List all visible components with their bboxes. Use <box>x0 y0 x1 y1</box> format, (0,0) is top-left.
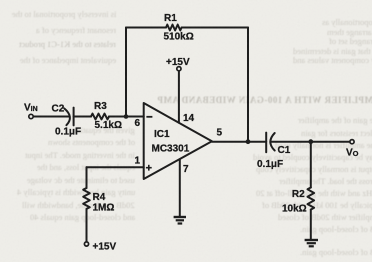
bleed-through text right column top <box>322 17 372 27</box>
op-amp plus sign <box>146 165 152 171</box>
wire R2 to ground <box>310 210 312 240</box>
wire feedback left vertical <box>125 28 127 117</box>
capacitor C2 straight plate <box>73 108 75 126</box>
wire R4 to +15V terminal <box>86 209 88 242</box>
svg-text:6: 6 <box>135 118 141 129</box>
bleed-through text bottom-left <box>72 125 135 135</box>
capacitor C1 straight plate <box>265 133 267 153</box>
wire VIN to C2 <box>33 116 69 118</box>
svg-text:VIN: VIN <box>24 103 38 114</box>
svg-text:R1: R1 <box>164 13 177 24</box>
terminal +15V bottom <box>84 242 88 246</box>
resistor R4 zigzag <box>83 188 90 209</box>
node junction feedback/output <box>246 139 251 144</box>
op-amp IC1 triangle <box>144 103 212 179</box>
terminal +15V top <box>177 67 181 71</box>
svg-text:+15V: +15V <box>166 57 190 68</box>
terminal VO <box>350 140 354 144</box>
pin 7 ground line <box>179 159 181 217</box>
wire feedback top right <box>182 27 248 29</box>
wire pin 1 down to R4 <box>86 167 88 188</box>
wire feedback right vertical <box>247 28 249 142</box>
svg-text:5: 5 <box>217 128 223 139</box>
svg-text:IC1: IC1 <box>154 129 170 140</box>
svg-text:R2: R2 <box>292 189 305 200</box>
resistor R1 zigzag <box>166 25 182 31</box>
wire R3 to pin 6 <box>109 116 144 118</box>
svg-text:MC3301: MC3301 <box>152 144 190 155</box>
svg-text:510kΩ: 510kΩ <box>164 32 194 43</box>
svg-text:5.1kΩ: 5.1kΩ <box>95 120 122 131</box>
wire output pin 5 <box>212 141 266 143</box>
node junction C1/R2/VO <box>308 139 313 144</box>
bleed-through text top-left <box>12 9 116 19</box>
ground R2 <box>305 240 318 246</box>
svg-text:R3: R3 <box>94 101 107 112</box>
+15V supply line to pin 14 <box>178 71 180 123</box>
svg-text:R4: R4 <box>93 192 106 203</box>
svg-text:C1: C1 <box>278 145 291 156</box>
node junction R3/feedback <box>124 114 129 119</box>
wire C1 to VO <box>272 141 350 143</box>
svg-text:10kΩ: 10kΩ <box>282 204 307 215</box>
svg-text:1MΩ: 1MΩ <box>93 203 115 214</box>
capacitor C2 curved plate <box>64 108 70 125</box>
op-amp minus sign <box>146 116 152 118</box>
resistor R2 zigzag <box>308 188 315 210</box>
svg-text:0.1μF: 0.1μF <box>257 159 283 170</box>
wire feedback top left <box>126 27 166 29</box>
svg-text:+15V: +15V <box>93 242 117 253</box>
wire C2 to R3 <box>74 116 91 118</box>
bleed-through heading <box>157 95 372 105</box>
wire pin 1 horizontal <box>87 166 144 168</box>
resistor R3 zigzag <box>91 114 109 120</box>
svg-text:1: 1 <box>135 156 141 167</box>
capacitor C1 curved plate <box>270 133 274 151</box>
wire R2 down from node <box>310 142 312 188</box>
svg-text:7: 7 <box>183 164 189 175</box>
ground pin 7 <box>174 217 186 224</box>
svg-text:C2: C2 <box>52 104 65 115</box>
svg-text:14: 14 <box>183 113 195 124</box>
terminal VIN <box>29 114 33 118</box>
bleed-through text right column <box>298 115 372 125</box>
svg-text:0.1μF: 0.1μF <box>55 127 81 138</box>
svg-text:VO: VO <box>346 148 359 159</box>
